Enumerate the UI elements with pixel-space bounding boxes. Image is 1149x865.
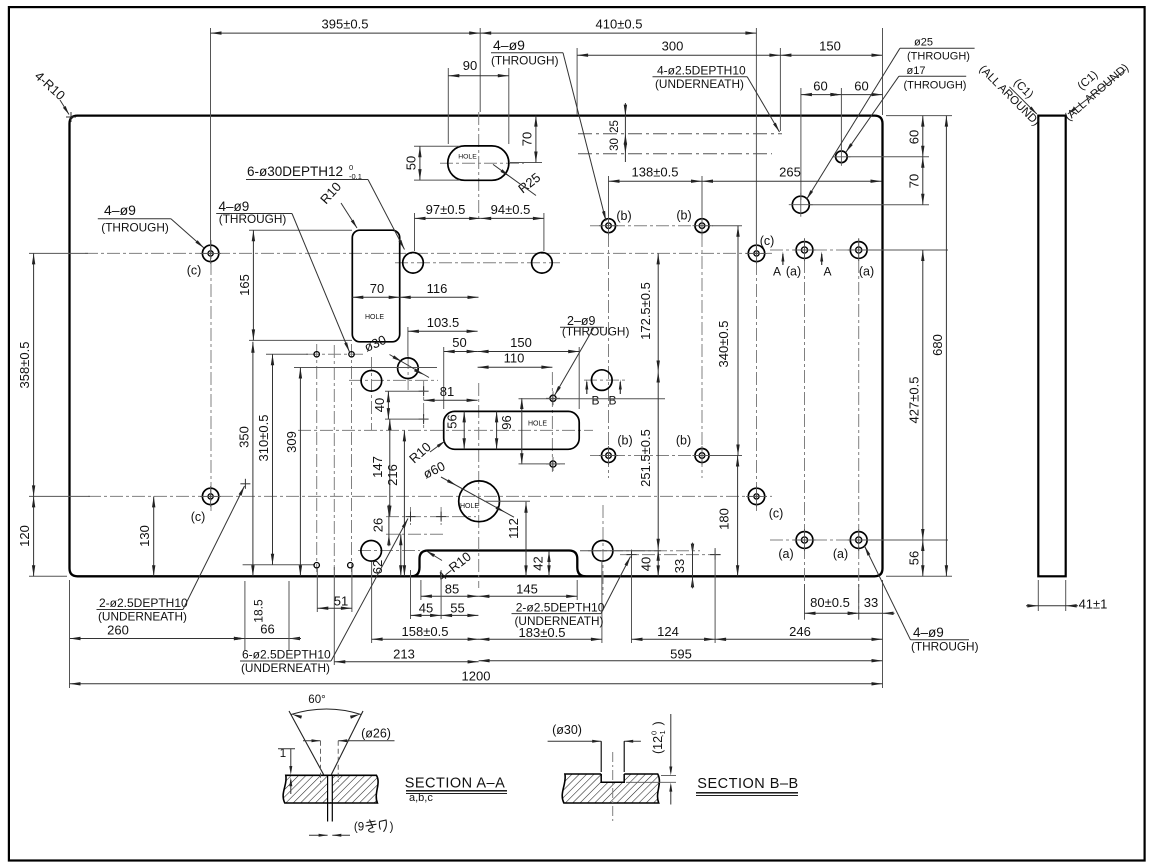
svg-text:(9: (9 <box>354 822 364 834</box>
svg-text:55: 55 <box>450 601 464 616</box>
svg-text:B: B <box>608 394 616 408</box>
svg-text:216: 216 <box>385 464 400 486</box>
svg-text:60: 60 <box>854 79 868 94</box>
svg-text:90: 90 <box>463 58 477 73</box>
svg-text:50: 50 <box>403 156 418 170</box>
svg-text:30: 30 <box>609 138 621 151</box>
svg-text:4–ø9: 4–ø9 <box>913 625 944 640</box>
svg-text:(a): (a) <box>778 547 793 561</box>
svg-text:60°: 60° <box>308 694 325 706</box>
svg-text:0: 0 <box>349 163 353 172</box>
svg-text:213: 213 <box>393 647 415 662</box>
svg-text:358±0.5: 358±0.5 <box>17 342 32 389</box>
svg-text:33: 33 <box>864 595 878 610</box>
svg-text:(a): (a) <box>859 265 874 279</box>
svg-text:(b): (b) <box>676 434 691 448</box>
svg-text:150: 150 <box>819 39 841 54</box>
svg-text:80±0.5: 80±0.5 <box>810 595 850 610</box>
svg-text:40: 40 <box>372 398 387 412</box>
svg-text:HOLE: HOLE <box>528 421 547 428</box>
svg-text:45: 45 <box>419 601 433 616</box>
svg-text:(b): (b) <box>617 434 632 448</box>
svg-text:145: 145 <box>516 582 538 597</box>
svg-text:50: 50 <box>452 335 466 350</box>
svg-text:2-ø2.5DEPTH10: 2-ø2.5DEPTH10 <box>99 596 188 610</box>
svg-text:ø25: ø25 <box>914 37 933 49</box>
svg-text:138±0.5: 138±0.5 <box>632 165 679 180</box>
svg-text:(UNDERNEATH): (UNDERNEATH) <box>515 614 604 628</box>
svg-text:SECTION A–A: SECTION A–A <box>405 776 506 792</box>
svg-text:165: 165 <box>237 274 252 296</box>
svg-text:260: 260 <box>107 623 129 638</box>
svg-text:1200: 1200 <box>462 669 491 684</box>
svg-text:395±0.5: 395±0.5 <box>322 17 369 32</box>
svg-text:(ø30): (ø30) <box>552 723 582 737</box>
svg-text:(THROUGH): (THROUGH) <box>491 54 559 68</box>
svg-text:94±0.5: 94±0.5 <box>491 202 531 217</box>
svg-text:103.5: 103.5 <box>427 315 460 330</box>
svg-text:26: 26 <box>371 518 386 532</box>
svg-text:4-ø2.5DEPTH10: 4-ø2.5DEPTH10 <box>657 64 746 78</box>
svg-text:70: 70 <box>906 174 921 188</box>
svg-text:-1: -1 <box>658 730 667 737</box>
svg-text:(ø26): (ø26) <box>361 727 391 741</box>
svg-text:56: 56 <box>906 551 921 565</box>
svg-text:81: 81 <box>440 384 454 399</box>
svg-text:60: 60 <box>906 130 921 144</box>
svg-text:A: A <box>823 265 831 279</box>
svg-text:96: 96 <box>499 415 514 429</box>
svg-text:(THROUGH): (THROUGH) <box>907 51 970 63</box>
svg-text:66: 66 <box>260 622 274 637</box>
svg-text:410±0.5: 410±0.5 <box>596 17 643 32</box>
svg-text:(c): (c) <box>769 507 784 521</box>
svg-text:(UNDERNEATH): (UNDERNEATH) <box>241 661 330 675</box>
svg-text:51: 51 <box>334 594 348 609</box>
svg-text:(a): (a) <box>786 265 801 279</box>
svg-text:6-ø30DEPTH12: 6-ø30DEPTH12 <box>247 164 343 179</box>
svg-text:(THROUGH): (THROUGH) <box>219 212 287 226</box>
svg-text:97±0.5: 97±0.5 <box>426 202 466 217</box>
svg-text:(a): (a) <box>833 547 848 561</box>
svg-text:70: 70 <box>370 281 384 296</box>
svg-text:62: 62 <box>370 560 385 574</box>
svg-text:56: 56 <box>445 414 460 428</box>
svg-text:(THROUGH): (THROUGH) <box>562 325 630 339</box>
svg-text:150: 150 <box>510 335 532 350</box>
svg-text:300: 300 <box>662 39 684 54</box>
svg-text:172.5±0.5: 172.5±0.5 <box>638 282 653 340</box>
svg-text:427±0.5: 427±0.5 <box>906 377 921 424</box>
svg-text:85: 85 <box>445 582 459 597</box>
svg-text:60: 60 <box>813 79 827 94</box>
svg-text:(b): (b) <box>616 209 631 223</box>
svg-text:(c): (c) <box>760 234 775 248</box>
svg-text:(c): (c) <box>187 264 202 278</box>
svg-text:B: B <box>591 394 599 408</box>
svg-text:41±1: 41±1 <box>1079 597 1108 612</box>
svg-text:(UNDERNEATH): (UNDERNEATH) <box>655 77 744 91</box>
svg-text:147: 147 <box>370 456 385 478</box>
svg-text:310±0.5: 310±0.5 <box>256 415 271 462</box>
svg-text:ø17: ø17 <box>907 65 926 77</box>
svg-text:251.5±0.5: 251.5±0.5 <box>638 429 653 487</box>
svg-text:25: 25 <box>609 120 621 133</box>
svg-text:309: 309 <box>284 431 299 453</box>
svg-text:(b): (b) <box>676 209 691 223</box>
svg-text:33: 33 <box>672 559 687 573</box>
svg-text:(c): (c) <box>191 510 206 524</box>
svg-text:18.5: 18.5 <box>252 599 266 623</box>
svg-text:6-ø2.5DEPTH10: 6-ø2.5DEPTH10 <box>242 648 331 662</box>
svg-text:246: 246 <box>789 624 811 639</box>
svg-text:HOLE: HOLE <box>365 314 384 321</box>
svg-text:340±0.5: 340±0.5 <box>716 321 731 368</box>
svg-text:110: 110 <box>504 351 525 366</box>
svg-text:680: 680 <box>930 334 945 356</box>
svg-text:(THROUGH): (THROUGH) <box>101 221 169 235</box>
svg-text:(THROUGH): (THROUGH) <box>911 640 979 654</box>
svg-text:4–ø9: 4–ø9 <box>104 202 136 218</box>
svg-text:595: 595 <box>670 646 692 661</box>
svg-text:158±0.5: 158±0.5 <box>402 624 449 639</box>
svg-text:a,b,c: a,b,c <box>409 792 433 804</box>
svg-text:4–ø9: 4–ø9 <box>493 37 525 53</box>
svg-text:SECTION B–B: SECTION B–B <box>697 776 798 792</box>
svg-text:265: 265 <box>779 165 801 180</box>
svg-text:HOLE: HOLE <box>460 503 479 510</box>
svg-text:HOLE: HOLE <box>458 154 477 161</box>
svg-text:116: 116 <box>427 281 448 296</box>
svg-text:42: 42 <box>531 556 546 570</box>
svg-text:40: 40 <box>639 557 654 571</box>
svg-text:1: 1 <box>280 748 286 760</box>
svg-text:(UNDERNEATH): (UNDERNEATH) <box>98 610 187 624</box>
svg-text:180: 180 <box>717 508 732 530</box>
svg-text:2-ø2.5DEPTH10: 2-ø2.5DEPTH10 <box>516 601 605 615</box>
svg-text:350: 350 <box>236 426 251 448</box>
svg-text:120: 120 <box>17 525 32 547</box>
svg-text:): ) <box>390 822 394 834</box>
svg-text:130: 130 <box>137 525 152 547</box>
svg-text:112: 112 <box>506 518 521 539</box>
svg-text:(THROUGH): (THROUGH) <box>904 80 967 92</box>
svg-text:A: A <box>773 265 781 279</box>
svg-text:70: 70 <box>519 132 534 146</box>
svg-text:124: 124 <box>657 624 679 639</box>
